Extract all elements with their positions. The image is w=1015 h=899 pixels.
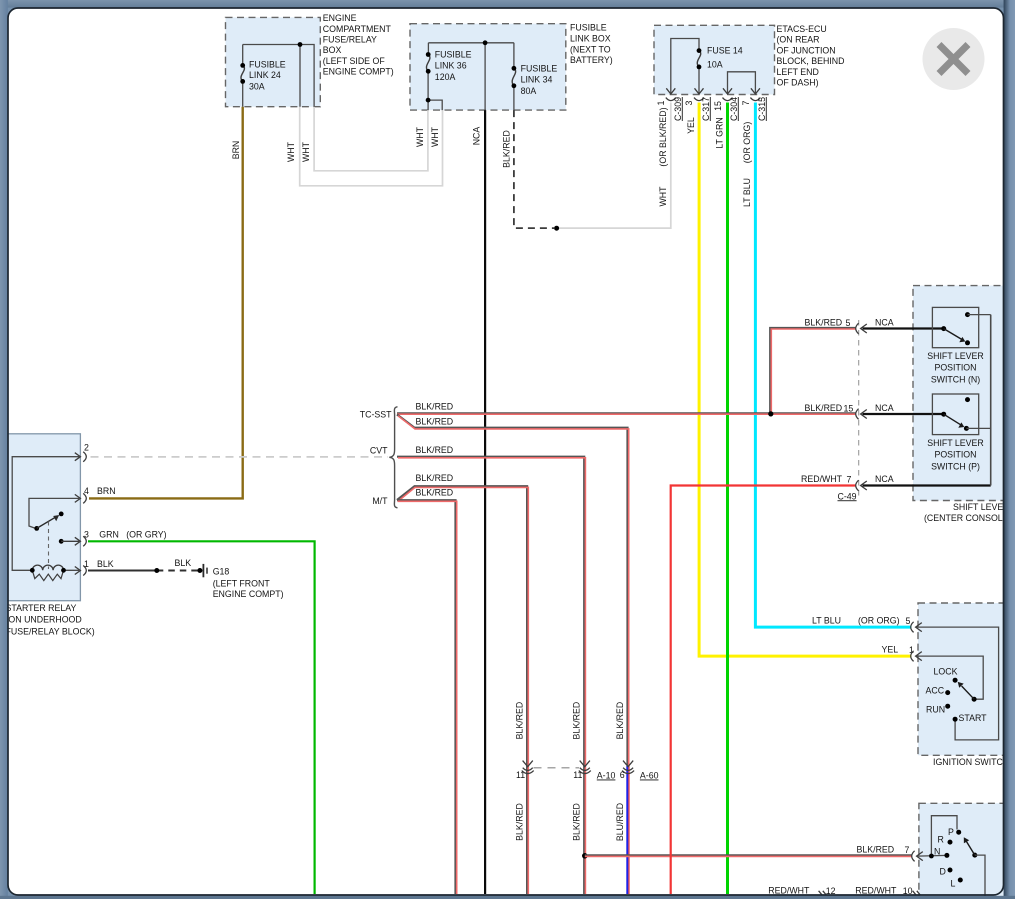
range switch internal wiring — [918, 816, 958, 856]
svg-text:5: 5 — [906, 616, 911, 626]
shift lever position switch N contacts — [941, 312, 991, 345]
svg-text:NCA: NCA — [875, 403, 894, 413]
fusible link 24 value label — [249, 59, 286, 91]
svg-text:BLK/RED: BLK/RED — [416, 402, 454, 412]
bottom connector marks (cut by frame) — [819, 891, 827, 895]
svg-text:3: 3 — [684, 100, 694, 105]
svg-text:SHIFT LEVER: SHIFT LEVER — [953, 502, 1010, 512]
wire RED/WHT from C-49 pin 7 row down to bottom — [671, 486, 856, 895]
C-49 pin 7 connector — [856, 480, 867, 491]
svg-text:POSITION: POSITION — [934, 450, 976, 460]
wire BLK/RED branch up to shift lever pin 5 — [770, 328, 855, 414]
svg-text:BATTERY): BATTERY) — [570, 55, 613, 65]
ignition switch dashed enclosure — [918, 603, 1008, 755]
svg-text:7: 7 — [741, 100, 751, 105]
ETACS-ECU dashed enclosure — [654, 25, 775, 94]
svg-text:FUSIBLE: FUSIBLE — [521, 64, 558, 74]
wire NCA pin 7 row — [863, 484, 991, 486]
svg-text:10A: 10A — [707, 59, 723, 69]
junction node TC-SST/pin15 — [768, 411, 773, 416]
wire BLU/RED below pin 6 connector — [628, 766, 630, 894]
C-49 dashed connector line — [858, 320, 860, 497]
svg-text:LINK BOX: LINK BOX — [570, 34, 611, 44]
svg-text:N: N — [934, 847, 940, 857]
svg-text:11: 11 — [573, 770, 582, 780]
svg-text:BLK/RED: BLK/RED — [805, 403, 843, 413]
ignition switch pin 1 connector — [911, 651, 922, 662]
svg-text:LT BLU: LT BLU — [742, 178, 752, 207]
svg-text:(NEXT TO: (NEXT TO — [570, 44, 611, 54]
svg-text:LINK 36: LINK 36 — [435, 60, 467, 70]
starter relay pin 2 connector — [75, 452, 87, 462]
shift lever position switch P caption — [927, 438, 984, 471]
svg-text:FUSE/RELAY: FUSE/RELAY — [323, 35, 377, 45]
svg-text:(CENTER CONSOLE: (CENTER CONSOLE — [924, 513, 1009, 523]
transmission range switch dashed enclosure — [919, 803, 1006, 899]
svg-text:FUSIBLE: FUSIBLE — [435, 50, 472, 60]
svg-text:BLK/RED: BLK/RED — [805, 317, 843, 327]
ground G18 symbol — [202, 564, 204, 577]
svg-text:NCA: NCA — [471, 127, 481, 146]
wire BRN from fusible link 24 to starter relay pin 4 — [89, 107, 243, 499]
shift lever position switch N body — [932, 307, 978, 347]
range switch pin 7 connector — [912, 851, 923, 862]
fuse 14 element — [697, 48, 702, 69]
ETACS pin 3 connector arrow — [694, 88, 704, 100]
svg-text:7: 7 — [847, 475, 852, 485]
wire WHT from junction to ETACS pin 1 — [557, 103, 671, 229]
svg-text:BLK/RED: BLK/RED — [857, 844, 895, 854]
shift lever position switch P body — [932, 394, 978, 435]
svg-text:BOX: BOX — [323, 45, 342, 55]
svg-text:YEL: YEL — [686, 117, 696, 134]
shift lever position switch P contacts — [941, 397, 991, 431]
ETACS pin 7 connector arrow — [750, 88, 760, 100]
junction node on CVT column — [582, 853, 588, 859]
starter relay pin 1 connector — [75, 566, 87, 576]
node at range switch junction — [929, 854, 934, 859]
svg-text:C-309: C-309 — [673, 97, 683, 121]
close button — [923, 28, 985, 90]
wire YEL from ETACS pin 3 to ignition switch pin 1 — [699, 103, 911, 657]
svg-text:BLK/RED: BLK/RED — [416, 473, 454, 483]
svg-text:LT BLU: LT BLU — [812, 616, 841, 626]
node in engine compartment box — [298, 42, 303, 47]
ETACS pin 15 connector arrow — [723, 88, 733, 100]
fusible link 24 internal wiring — [243, 45, 314, 107]
svg-text:START: START — [959, 713, 988, 723]
svg-text:OF DASH): OF DASH) — [777, 78, 819, 88]
svg-text:BLK/RED: BLK/RED — [416, 417, 454, 427]
svg-text:80A: 80A — [521, 86, 537, 96]
ignition switch position labels — [926, 666, 988, 723]
ETACS-ECU caption — [777, 24, 845, 88]
svg-text:C-304: C-304 — [729, 97, 739, 121]
svg-text:C-315: C-315 — [757, 97, 767, 121]
shift lever caption — [924, 502, 1010, 523]
starter relay caption — [6, 603, 95, 636]
svg-text:BLK/RED: BLK/RED — [515, 702, 525, 740]
ground G18 caption — [213, 567, 284, 599]
range switch contacts P R N D L — [944, 830, 985, 899]
svg-text:P: P — [948, 827, 954, 837]
svg-text:BLK/RED: BLK/RED — [572, 803, 582, 841]
wire BLK/RED dashed from fusible link 34 to junction — [514, 110, 554, 228]
dashed jumper between the two pin 11 connectors — [534, 767, 580, 769]
svg-text:4: 4 — [84, 486, 89, 496]
svg-text:STARTER RELAY: STARTER RELAY — [6, 603, 77, 613]
svg-text:30A: 30A — [249, 82, 265, 92]
svg-text:ETACS-ECU: ETACS-ECU — [777, 24, 827, 34]
starter relay pin 3 connector — [75, 536, 87, 546]
svg-text:BLK/RED: BLK/RED — [572, 702, 582, 740]
svg-text:ENGINE COMPT): ENGINE COMPT) — [323, 67, 394, 77]
fusible link 36 value label — [435, 50, 472, 82]
svg-text:R: R — [938, 835, 944, 845]
svg-text:COMPARTMENT: COMPARTMENT — [323, 24, 392, 34]
svg-text:RED/WHT: RED/WHT — [801, 474, 843, 484]
fusible link 36 element — [426, 52, 431, 74]
svg-text:(OR BLK/RED): (OR BLK/RED) — [658, 107, 668, 166]
svg-text:3: 3 — [84, 530, 89, 540]
starter relay coil — [30, 565, 66, 581]
inline connector pin 6 (A-60) — [622, 761, 634, 774]
svg-text:15: 15 — [713, 101, 723, 111]
svg-text:LINK 34: LINK 34 — [521, 74, 553, 84]
fusible link 24 element — [240, 63, 245, 84]
svg-text:GRN: GRN — [99, 530, 119, 540]
node in fusible link box — [483, 40, 488, 45]
wire BLK from starter relay pin 1 to ground — [88, 570, 157, 572]
svg-text:6: 6 — [620, 770, 625, 780]
svg-text:ENGINE: ENGINE — [323, 13, 357, 23]
svg-text:TC-SST: TC-SST — [360, 410, 392, 420]
brace for TC-SST / CVT / M/T — [389, 407, 397, 508]
shift lever position switch N caption — [927, 351, 984, 384]
wire NCA black vertical from fusible link box — [484, 110, 486, 894]
svg-text:(OR ORG): (OR ORG) — [742, 122, 752, 164]
svg-text:5: 5 — [846, 318, 851, 328]
engine compartment fuse/relay box caption — [323, 13, 394, 77]
svg-text:IGNITION SWITCH: IGNITION SWITCH — [933, 757, 1009, 767]
fusible link box internal wiring — [428, 43, 514, 110]
svg-text:CVT: CVT — [370, 446, 388, 456]
svg-text:SWITCH (P): SWITCH (P) — [931, 461, 980, 471]
svg-text:7: 7 — [905, 845, 910, 855]
svg-text:(LEFT FRONT: (LEFT FRONT — [213, 578, 271, 588]
svg-text:C-317: C-317 — [701, 97, 711, 121]
wire joining switch N top, switch P bottom and pin 7 row — [990, 315, 992, 486]
svg-text:C-49: C-49 — [838, 491, 857, 501]
svg-text:POSITION: POSITION — [934, 363, 976, 373]
starter relay pin 4 connector — [75, 493, 87, 503]
svg-text:WHT: WHT — [658, 186, 668, 207]
wire WHT pair from engine-compartment box to fusible link box (inner) — [314, 107, 428, 171]
wire BLK/RED TC-SST upper: brace to shift lever pin 15 row — [397, 412, 856, 415]
svg-text:SHIFT LEVER: SHIFT LEVER — [927, 351, 984, 361]
junction node on WHT wire — [554, 226, 559, 231]
fuse 14 value label — [707, 45, 743, 69]
fusible link box caption — [570, 23, 613, 65]
wire WHT pair from engine-compartment box to fusible link box (outer) — [300, 107, 443, 186]
svg-text:RED/WHT: RED/WHT — [855, 885, 897, 895]
ignition switch internal wiring from pin 5 to START — [917, 627, 999, 740]
svg-text:(LEFT SIDE OF: (LEFT SIDE OF — [323, 56, 386, 66]
svg-text:BLU/RED: BLU/RED — [615, 803, 625, 841]
ETACS internal wiring pins 15 and 7 — [728, 72, 756, 93]
wire BLK/RED CVT: brace to A-10 pin 11 column, down to bottom — [397, 457, 585, 894]
C-49 pin 5 connector — [856, 323, 867, 334]
node on BLK wire — [154, 568, 159, 573]
svg-text:WHT: WHT — [286, 141, 296, 162]
svg-text:SHIFT LEVER: SHIFT LEVER — [927, 438, 984, 448]
ignition switch internal wiring from pin 1 to rotor — [917, 656, 984, 699]
svg-text:A-10: A-10 — [597, 771, 616, 781]
starter relay box (solid enclosure) — [4, 434, 80, 601]
svg-text:11: 11 — [516, 770, 525, 780]
wire NCA to shift lever position switch N — [863, 327, 944, 329]
svg-text:ACC: ACC — [926, 685, 945, 695]
svg-text:BLOCK, BEHIND: BLOCK, BEHIND — [777, 56, 845, 66]
shift lever dashed enclosure (center console) — [913, 286, 1008, 501]
svg-text:RUN: RUN — [926, 704, 945, 714]
svg-text:BLK: BLK — [97, 559, 114, 569]
inline connector pin 11 on CVT column (A-10) — [579, 761, 591, 774]
fusible link 34 element — [512, 66, 517, 88]
wire NCA to shift lever position switch P — [863, 413, 944, 415]
range switch position labels — [934, 827, 956, 889]
svg-text:LT GRN: LT GRN — [714, 117, 724, 148]
svg-text:120A: 120A — [435, 72, 456, 82]
svg-text:ENGINE COMPT): ENGINE COMPT) — [213, 589, 284, 599]
svg-text:LOCK: LOCK — [934, 666, 958, 676]
wire BLK/RED from junction to range switch pin 7 — [585, 855, 912, 856]
node at ground G18 — [197, 568, 202, 573]
ETACS internal wiring pin 1 — [671, 39, 699, 94]
wire LT GRN from ETACS pin 15 down — [726, 103, 729, 895]
fusible link 34 value label — [521, 64, 558, 97]
inline connector pin 11 on M/T column — [522, 761, 534, 774]
svg-text:BLK: BLK — [175, 558, 192, 568]
svg-text:LINK 24: LINK 24 — [249, 70, 281, 80]
svg-text:FUSIBLE: FUSIBLE — [570, 23, 607, 33]
svg-text:WHT: WHT — [301, 141, 311, 162]
wire LT BLU from ETACS pin 7 to ignition switch pin 5 — [755, 103, 911, 628]
wire BLK/RED M/T upper: brace to pin 11 column — [397, 486, 528, 894]
wire BLK/RED TC-SST lower: brace to A-60 pin 6 column — [397, 415, 629, 766]
svg-text:15: 15 — [844, 404, 854, 414]
svg-text:FUSE 14: FUSE 14 — [707, 45, 743, 55]
ignition switch contacts — [945, 678, 976, 722]
starter relay switch contacts — [34, 512, 79, 569]
svg-text:OF JUNCTION: OF JUNCTION — [777, 45, 836, 55]
svg-text:(ON REAR: (ON REAR — [777, 35, 820, 45]
C-49 pin 15 connector — [856, 409, 867, 420]
svg-text:FUSIBLE: FUSIBLE — [249, 59, 286, 69]
wire BLK/RED M/T lower: brace down to bottom — [397, 500, 457, 894]
svg-text:WHT: WHT — [415, 126, 425, 147]
svg-text:1: 1 — [656, 100, 666, 105]
svg-text:BLK/RED: BLK/RED — [615, 702, 625, 740]
svg-text:BLK/RED: BLK/RED — [416, 445, 454, 455]
svg-text:A-60: A-60 — [640, 771, 659, 781]
svg-text:FUSE/RELAY BLOCK): FUSE/RELAY BLOCK) — [6, 626, 95, 636]
ignition switch pin 5 connector — [911, 622, 922, 633]
svg-text:2: 2 — [84, 442, 89, 452]
engine compartment fuse/relay box (dashed enclosure) — [226, 17, 321, 106]
svg-text:G18: G18 — [213, 567, 230, 577]
svg-text:BRN: BRN — [231, 141, 241, 160]
svg-text:LEFT END: LEFT END — [777, 67, 819, 77]
svg-text:SWITCH (N): SWITCH (N) — [931, 374, 980, 384]
svg-text:(ON UNDERHOOD: (ON UNDERHOOD — [6, 615, 82, 625]
ETACS pin 1 connector arrow — [666, 88, 676, 100]
svg-text:YEL: YEL — [882, 645, 899, 655]
svg-text:M/T: M/T — [372, 496, 388, 506]
svg-text:(OR ORG): (OR ORG) — [858, 616, 900, 626]
svg-text:BRN: BRN — [97, 486, 116, 496]
svg-text:RED/WHT: RED/WHT — [768, 885, 810, 895]
svg-text:(OR GRY): (OR GRY) — [126, 530, 166, 540]
starter relay internal wiring — [12, 457, 79, 571]
node at fusible link 36 bottom elbow — [426, 98, 431, 103]
svg-text:L: L — [951, 879, 956, 889]
svg-text:NCA: NCA — [875, 474, 894, 484]
fusible link box (next to battery) dashed enclosure — [410, 24, 566, 110]
svg-text:WHT: WHT — [430, 126, 440, 147]
wire BLK dashed segment — [157, 570, 200, 572]
svg-text:1: 1 — [84, 559, 89, 569]
svg-text:BLK/RED: BLK/RED — [501, 130, 511, 168]
wire CVT dashed gray from starter relay pin 2 to brace — [91, 456, 389, 458]
wire GRN from starter relay pin 3 down — [88, 541, 315, 894]
svg-text:NCA: NCA — [875, 317, 894, 327]
svg-text:BLK/RED: BLK/RED — [416, 487, 454, 497]
svg-text:BLK/RED: BLK/RED — [515, 803, 525, 841]
svg-text:D: D — [940, 867, 946, 877]
